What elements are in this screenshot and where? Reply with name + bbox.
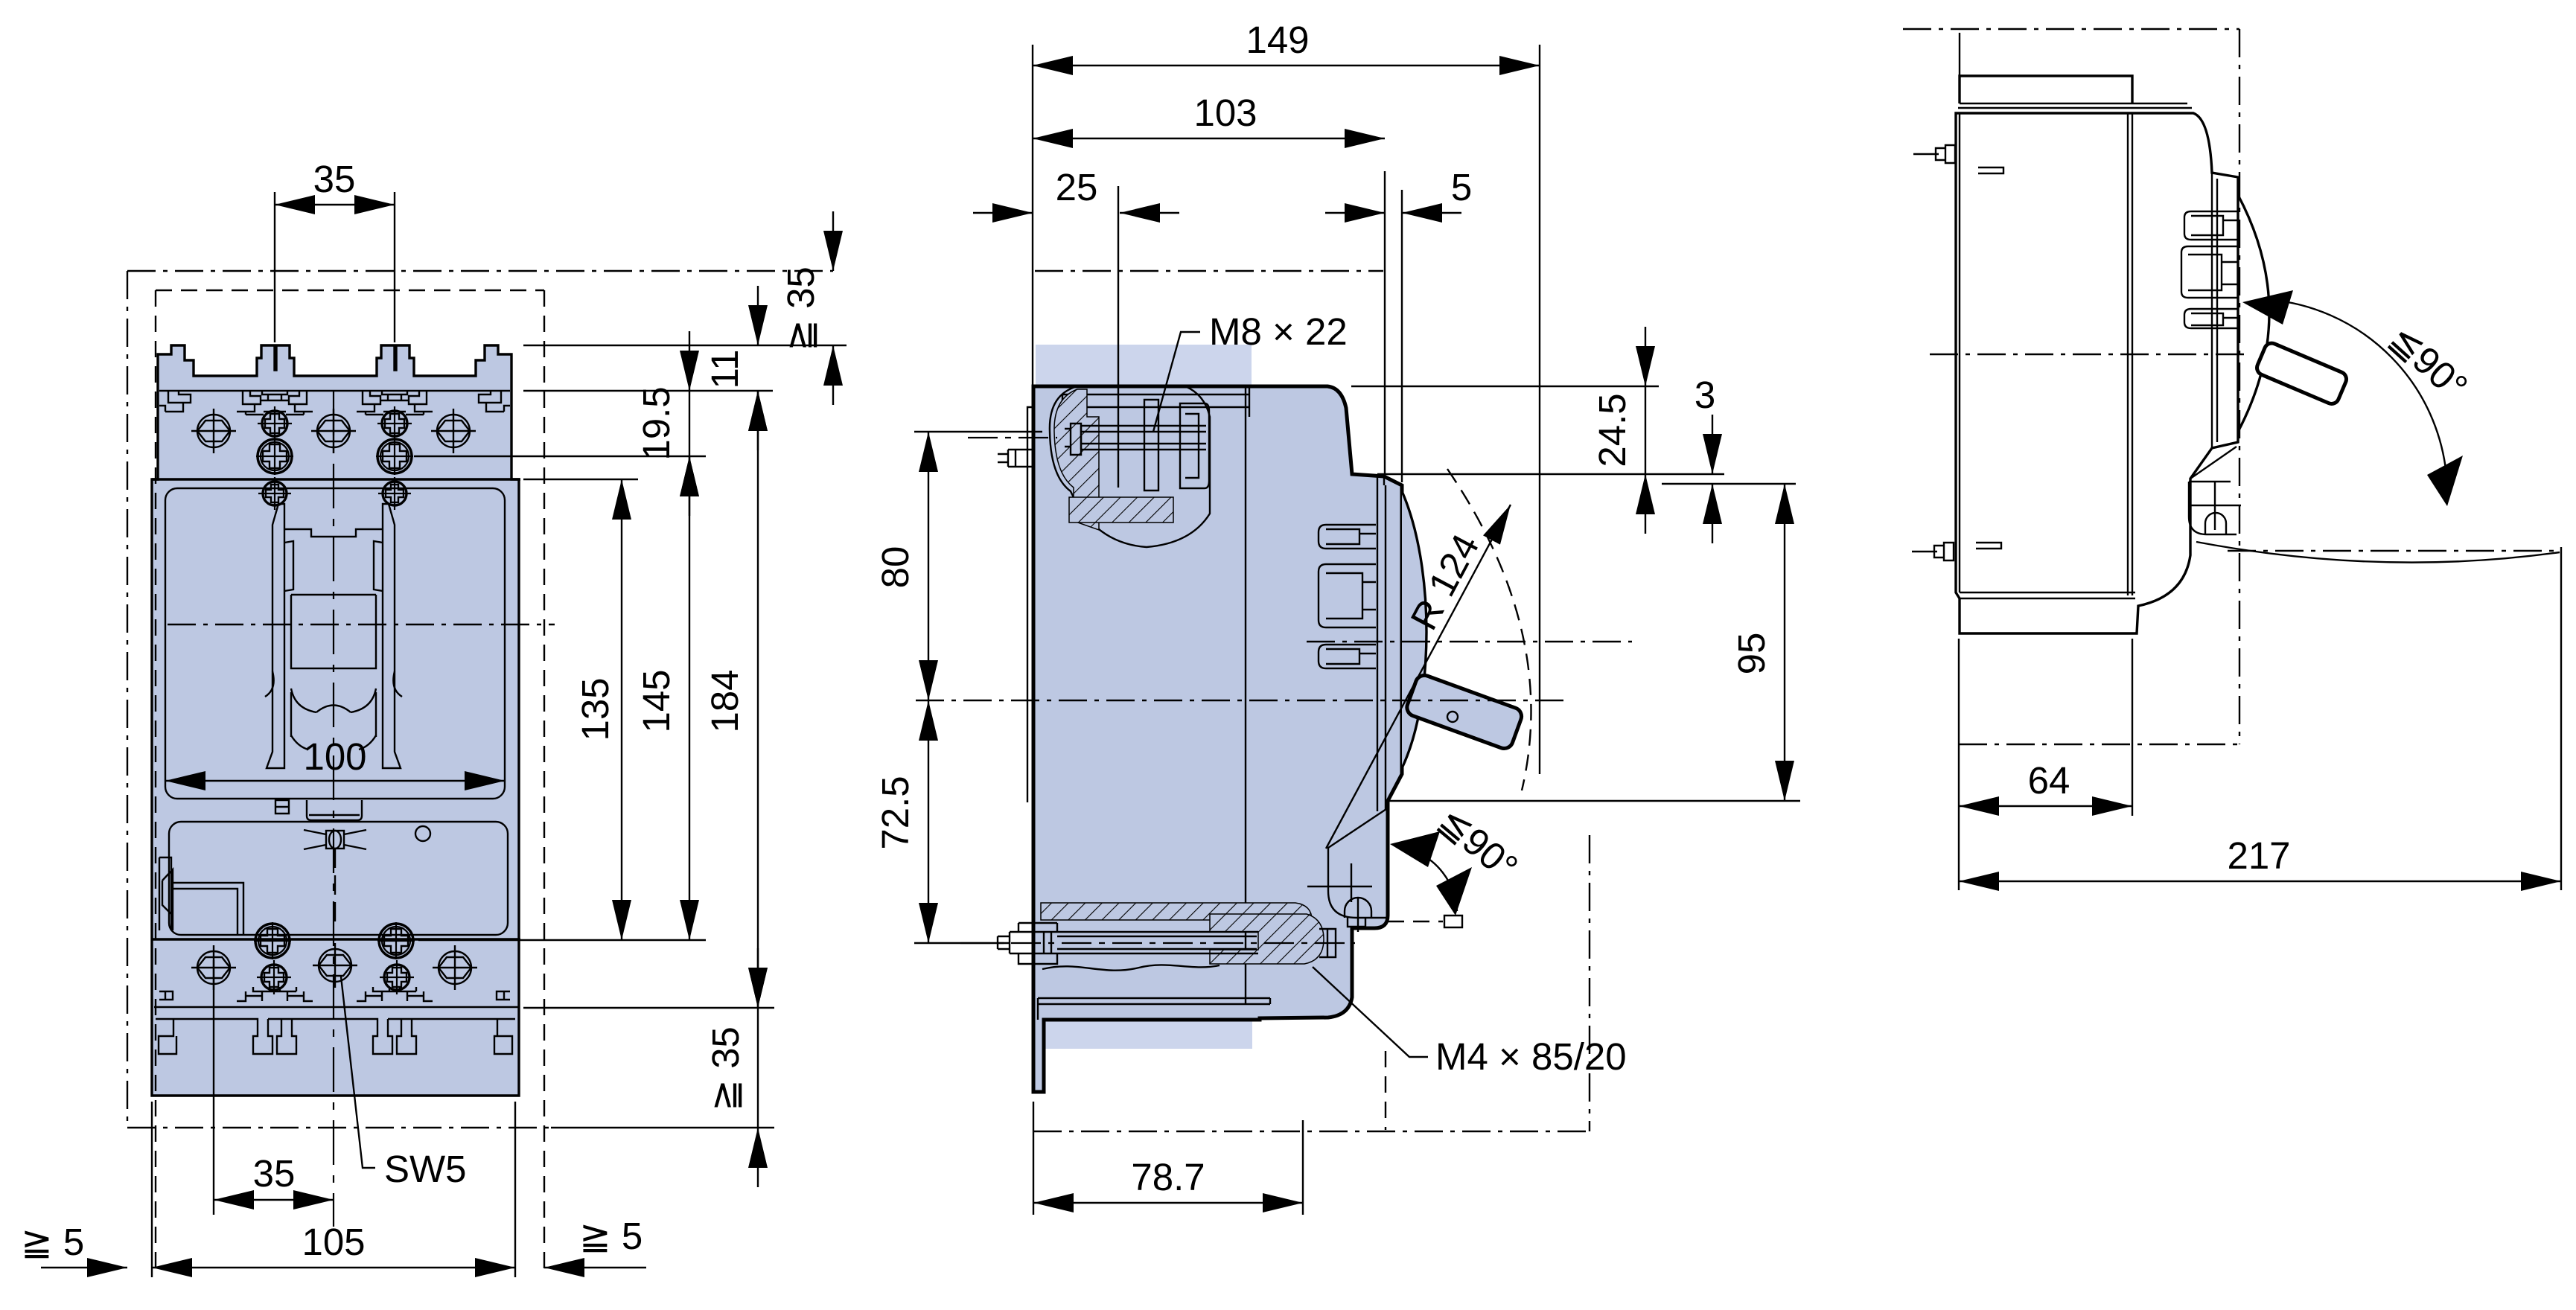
- R124 radius line: [1326, 505, 1511, 849]
- svg-text:35: 35: [313, 158, 356, 200]
- bottom dimension 35: [214, 1152, 334, 1200]
- dimension 149: [1033, 19, 1540, 65]
- dimension >=35 top: [780, 211, 833, 405]
- M4 bushing hatched block: [1210, 914, 1324, 964]
- svg-text:105: 105: [302, 1221, 365, 1263]
- clamp screw large D1 top: [256, 438, 293, 475]
- handle swing arc rear <=90: [2263, 299, 2447, 488]
- lower cover inner rounded rectangle: [169, 822, 508, 935]
- terminal top block: [1960, 76, 2132, 103]
- vertical boundary dash-dot rear: [2239, 29, 2240, 744]
- view centre line horizontal: [168, 624, 555, 625]
- bottom shelf lines: [1960, 592, 2135, 598]
- handle escutcheon dome: [1402, 491, 1426, 768]
- body inner joint double line: [2128, 113, 2132, 595]
- dimension 24.5: [1591, 327, 1645, 534]
- extension line top face right: [1351, 386, 1659, 387]
- handle pivot hole: [1447, 712, 1458, 722]
- SW5 leader line: [341, 977, 375, 1168]
- svg-text:103: 103: [1193, 92, 1257, 134]
- escutcheon dome arc rear view: [2238, 195, 2269, 432]
- svg-text:72.5: 72.5: [874, 776, 916, 849]
- cover screw S1: [258, 477, 291, 510]
- released latch dashed position: [1388, 921, 1443, 922]
- dashed front face extension below body: [1385, 1051, 1386, 1130]
- extension line screw axis bottom: [914, 942, 1010, 944]
- breaker body side view outline: [1033, 386, 1402, 1092]
- svg-text:64: 64: [2028, 759, 2070, 802]
- M4 x 85/20 label leader: [1313, 967, 1428, 1057]
- dimension 184: [704, 391, 758, 1008]
- dimension 3: [1695, 374, 1715, 543]
- operating handle: [1405, 673, 1524, 751]
- handle sweep dashed arc R124: [1447, 469, 1531, 790]
- hex socket screw H3 top: [431, 409, 476, 453]
- centre line horizontal rear view: [1930, 354, 2248, 355]
- hex socket screw H1 bottom: [191, 945, 236, 990]
- lower terminal block bottom edge: [154, 1006, 519, 1008]
- latch roller: [1345, 898, 1371, 932]
- svg-text:5: 5: [1451, 166, 1472, 208]
- terminal block top edge: [159, 390, 510, 392]
- extension line cover top level: [523, 479, 638, 480]
- extension line 78.7 left: [1033, 1102, 1034, 1215]
- latch crosshair rear: [2189, 482, 2241, 530]
- dimension 5: [1325, 166, 1472, 213]
- dimension 145: [635, 456, 689, 940]
- 100 dimension: [165, 735, 505, 781]
- terminal strip top lines: [1062, 386, 1249, 417]
- dimension 78.7: [1033, 1156, 1303, 1203]
- svg-text:M4 × 85/20: M4 × 85/20: [1435, 1035, 1627, 1078]
- cover top edge: [152, 478, 520, 480]
- clearance dashed line left: [155, 290, 156, 1274]
- svg-text:100: 100: [303, 735, 366, 778]
- boundary dash-dot bottom: [127, 1127, 551, 1128]
- dimension 19.5: [635, 331, 689, 516]
- M8 pocket hatch left: [1054, 389, 1099, 530]
- latch pocket: [1328, 809, 1386, 918]
- svg-text:217: 217: [2227, 834, 2290, 877]
- svg-text:≧ 5: ≧ 5: [579, 1215, 643, 1257]
- svg-text:24.5: 24.5: [1591, 393, 1633, 467]
- view centre line vertical: [333, 391, 334, 1227]
- handle tip level dash-dot: [1307, 641, 1632, 642]
- extension line screw axis top: [914, 431, 1042, 432]
- svg-text:3: 3: [1695, 374, 1715, 416]
- lower edge notch: [1976, 543, 2001, 549]
- dimension >=35 bottom: [704, 948, 758, 1187]
- dimension >=5 left: [21, 1221, 127, 1268]
- M8 nut detail: [1065, 424, 1081, 455]
- boundary dash-dot top: [127, 270, 833, 272]
- dimension 103: [1033, 92, 1385, 138]
- top dimension 35 extension lines: [275, 192, 395, 342]
- toggle grip rectangle: [291, 595, 376, 737]
- extension line pole centre: [1118, 186, 1119, 488]
- extension line body right bottom: [514, 1102, 516, 1277]
- lower fixing screw: [1912, 543, 1954, 560]
- upper edge notch: [1978, 167, 2003, 173]
- breaker body front view (molded case outline with castellated terminal shrouds): [152, 345, 519, 1096]
- clearance dashed line right: [543, 290, 545, 1274]
- extension line handle sweep max: [1539, 45, 1540, 774]
- svg-text:184: 184: [704, 669, 746, 732]
- pole 1 centre line: [213, 960, 214, 1215]
- svg-text:19.5: 19.5: [635, 386, 678, 460]
- extension line front face: [1401, 190, 1403, 482]
- extension line mounting face rear: [2132, 639, 2133, 816]
- M8 screw head: [1180, 403, 1209, 488]
- accessory clip large middle: [1319, 564, 1376, 627]
- panel cut curve: [2196, 542, 2560, 563]
- centre line horizontal middle view: [916, 700, 1571, 701]
- hex socket screw H1 top: [191, 409, 236, 453]
- lower cover lines: [1038, 998, 1270, 1020]
- M8 terminal bolt pocket outline: [1050, 386, 1210, 547]
- toggle opening right rail: [383, 504, 401, 768]
- lower castellation internal outline: [156, 1019, 515, 1054]
- svg-text:80: 80: [874, 546, 916, 589]
- M4 screw head: [998, 923, 1057, 964]
- M8 screw axis line: [968, 437, 1057, 438]
- front cover inner rounded rectangle: [165, 488, 505, 799]
- terminal clearance shading bottom: [1036, 968, 1252, 1049]
- small latch squares below cover: [275, 800, 289, 814]
- svg-text:M8 × 22: M8 × 22: [1209, 310, 1348, 353]
- operating handle rear view: [2254, 341, 2348, 406]
- bottom boundary dash-dot middle view: [1033, 1131, 1590, 1132]
- M4 screw tip slot: [1319, 929, 1336, 957]
- extension line body left bottom rear: [1958, 639, 1960, 890]
- extension line screw level 19.5: [414, 456, 706, 457]
- hex socket screw H2 top: [311, 409, 356, 453]
- terminal clearance shading top: [1036, 345, 1252, 479]
- M8 washer plate: [1144, 400, 1158, 491]
- dimension 64: [1959, 759, 2132, 806]
- extension line 78.7: [1302, 1120, 1304, 1215]
- released position dash-dot line: [2228, 550, 2560, 552]
- FRONT VIEW: [21, 158, 847, 1277]
- svg-text:135: 135: [574, 677, 616, 741]
- accessory clip small bottom: [1319, 645, 1376, 668]
- bezel frame inner lines: [1377, 476, 1386, 811]
- dimension >=5 right: [544, 1215, 646, 1268]
- back panel lip line: [1027, 407, 1033, 802]
- breaker body rear side view outline: [1956, 113, 2238, 633]
- left edge inner line: [1959, 113, 1960, 592]
- extension line body left bottom: [151, 1102, 153, 1277]
- MIDDLE VIEW: [874, 19, 1800, 1215]
- extension line cover bottom level: [418, 939, 706, 941]
- top boundary dash-dot rear: [1903, 28, 2239, 30]
- M8 screw shaft: [1081, 426, 1206, 450]
- latch swing arc <=90: [1409, 849, 1457, 911]
- latch swing arrow lower: [1436, 867, 1472, 916]
- svg-text:95: 95: [1730, 633, 1773, 675]
- moulding break wavy line: [1042, 965, 1220, 970]
- T-slot busbar clamp right edge: [479, 391, 510, 412]
- boundary dash-dot left: [127, 271, 128, 1128]
- centre interlock tab: [307, 800, 362, 820]
- toggle opening left rail: [267, 504, 284, 768]
- phillips screw P2 bottom: [380, 960, 414, 994]
- dimension 105: [152, 1221, 515, 1268]
- dimension 80: [874, 432, 928, 700]
- T-slot busbar clamp pole mid 2: [357, 391, 433, 415]
- extension line terminal top level: [523, 345, 847, 346]
- boundary bottom extension to >=35: [551, 1127, 774, 1128]
- toggle top bridge: [284, 529, 383, 591]
- clearance dashed line top: [156, 290, 544, 291]
- extension line bezel bottom level right: [1388, 800, 1800, 802]
- bezel plate inner line: [2212, 173, 2217, 448]
- handle swing arrow lower rear: [2427, 456, 2463, 506]
- trip button circle: [415, 826, 430, 841]
- lower left accessory flange: [159, 857, 243, 935]
- extension line bezel top level right: [1662, 483, 1796, 485]
- M8 pocket hatch bottom: [1069, 497, 1173, 523]
- svg-text:145: 145: [635, 669, 678, 732]
- accessory clip small top: [1319, 525, 1376, 549]
- svg-text:11: 11: [704, 350, 746, 389]
- dimension 11: [704, 286, 758, 450]
- accessory clip large rear: [2181, 246, 2238, 298]
- M4 screw axis: [960, 942, 1355, 944]
- toggle lower arcs: [265, 671, 402, 750]
- extension line cover face: [1384, 171, 1386, 476]
- M4 fixing screw shaft: [1010, 932, 1258, 953]
- dimension 135: [574, 479, 622, 940]
- centre construction dash-dot top: [1035, 270, 1383, 272]
- latch pocket rear: [2189, 447, 2237, 534]
- clamp screw large D2 top: [376, 438, 413, 475]
- extension line right end: [2560, 547, 2562, 890]
- accessory clip small bottom rear: [2184, 309, 2238, 328]
- top mounting stud: [998, 450, 1033, 467]
- latch crosshair: [1307, 863, 1372, 902]
- sealing eyelet symbol: [304, 830, 366, 923]
- svg-text:149: 149: [1246, 19, 1309, 61]
- cover screw S2: [378, 477, 411, 510]
- extension line block edge level: [523, 390, 773, 392]
- clamp screw large D2 bottom: [377, 922, 415, 959]
- dimension 72.5: [874, 700, 928, 943]
- handle swing arrow upper rear: [2242, 290, 2293, 325]
- T-slot busbar clamp left edge: [159, 391, 191, 412]
- accessory clip small top rear: [2184, 211, 2238, 240]
- released latch nose outline: [1444, 916, 1462, 927]
- mech centre vertical dash-dot right: [1589, 835, 1590, 1131]
- latch roller rear: [2205, 513, 2226, 534]
- extension line to top boundary: [1959, 33, 1960, 76]
- upper fixing screw: [1913, 145, 1955, 163]
- lower cover bottom edge: [152, 938, 520, 940]
- dimension 217: [1959, 834, 2561, 881]
- svg-text:≧ 35: ≧ 35: [704, 1026, 747, 1111]
- extension line block bottom level: [523, 1007, 774, 1009]
- svg-text:78.7: 78.7: [1131, 1156, 1205, 1198]
- top block ledge lines: [1958, 103, 2192, 108]
- svg-text:25: 25: [1056, 166, 1098, 208]
- hex socket screw H3 bottom: [433, 945, 477, 990]
- cover joint line: [1245, 386, 1246, 1004]
- extension line back plane up: [1032, 45, 1033, 386]
- hex socket screw H2 bottom (SW5): [313, 943, 357, 988]
- phillips screw P1 bottom: [257, 960, 291, 994]
- T-slots lower row: [159, 987, 510, 1001]
- latch swing arrow upper: [1390, 831, 1440, 867]
- dimension 25: [973, 166, 1179, 213]
- extension line step level right: [1377, 473, 1724, 475]
- phillips screw P2 top: [377, 406, 412, 441]
- svg-text:35: 35: [253, 1152, 296, 1195]
- M4 shaft channel hatched top strip: [1041, 903, 1312, 920]
- svg-text:SW5: SW5: [384, 1148, 467, 1190]
- bottom boundary dash-dot rear: [1959, 744, 2239, 745]
- clamp screw large D1 bottom: [254, 922, 291, 959]
- dimension 95: [1730, 484, 1785, 801]
- T-slot busbar clamp pole mid 1: [237, 391, 313, 415]
- phillips screw P1 top: [258, 406, 292, 441]
- top dimension 35: [275, 158, 395, 205]
- RIGHT VIEW: [1903, 29, 2561, 890]
- M8 x 22 label leader: [1153, 332, 1200, 432]
- svg-text:≧ 35: ≧ 35: [780, 266, 822, 351]
- svg-text:≧ 5: ≧ 5: [21, 1221, 84, 1263]
